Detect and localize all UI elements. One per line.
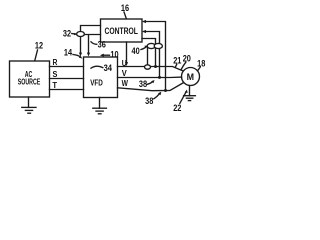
- label 38 (lower): [145, 92, 161, 106]
- svg-text:M: M: [187, 72, 194, 82]
- svg-text:CONTROL: CONTROL: [104, 26, 138, 36]
- svg-text:12: 12: [35, 41, 43, 51]
- wire V: [118, 76, 182, 78]
- CONTROL block 16: [101, 19, 143, 42]
- svg-text:20: 20: [183, 53, 191, 63]
- svg-text:32: 32: [63, 28, 71, 38]
- svg-text:SOURCE: SOURCE: [18, 77, 41, 86]
- svg-text:22: 22: [173, 103, 181, 113]
- label 14: [64, 48, 83, 59]
- label 34: [91, 63, 112, 73]
- ground (AC source): [22, 97, 36, 113]
- label 32: [63, 28, 77, 38]
- svg-text:T: T: [52, 80, 57, 90]
- wire: sense line to wire V (arrow into control): [142, 30, 161, 79]
- label 36: [91, 39, 106, 49]
- label 10 (system arrow): [100, 50, 119, 60]
- motor M 18: [182, 68, 200, 86]
- wire: sense line to wire U (junction): [142, 39, 157, 69]
- sensor curl (40) left oval: [147, 43, 155, 48]
- svg-text:10: 10: [110, 50, 118, 60]
- svg-text:18: 18: [197, 58, 205, 68]
- svg-text:40: 40: [132, 46, 140, 56]
- svg-text:38: 38: [139, 79, 147, 89]
- svg-text:36: 36: [98, 39, 106, 49]
- label 16: [121, 3, 129, 19]
- svg-text:R: R: [53, 57, 59, 67]
- svg-text:16: 16: [121, 3, 129, 13]
- label 38 (upper): [139, 79, 155, 89]
- sensor 38 oval on wire U: [145, 65, 151, 69]
- label 12: [35, 41, 43, 61]
- svg-text:VFD: VFD: [90, 78, 103, 88]
- svg-text:34: 34: [104, 63, 112, 73]
- AC source block 12: [10, 61, 50, 97]
- svg-text:V: V: [122, 68, 127, 78]
- wire: control bottom sense to wire U (arrow): [125, 42, 128, 66]
- wire T: [50, 89, 84, 91]
- label 21: [173, 56, 181, 68]
- label 20: [181, 53, 191, 69]
- wire: sense line to wire W (arrow into control): [142, 20, 167, 92]
- svg-text:14: 14: [64, 48, 72, 58]
- short sense stub on wire U: [147, 46, 149, 67]
- label 18: [197, 58, 205, 71]
- VFD block 34: [84, 57, 118, 98]
- svg-text:S: S: [53, 69, 58, 79]
- wire U: [118, 67, 183, 71]
- sensor 32 (oval): [77, 32, 85, 37]
- wire S: [50, 78, 84, 80]
- label 40: [132, 45, 149, 56]
- ground (motor) 22: [184, 86, 196, 101]
- sensor curl (40) right oval: [154, 43, 162, 48]
- svg-text:W: W: [122, 78, 129, 88]
- ground (VFD): [93, 98, 107, 114]
- wire R: [50, 66, 84, 68]
- label 22: [173, 90, 187, 113]
- svg-text:38: 38: [145, 96, 153, 106]
- wire W: [118, 83, 184, 91]
- wire 36: control to VFD: [85, 35, 101, 57]
- wire: control to VFD input sense (line with sensor 32): [79, 26, 101, 57]
